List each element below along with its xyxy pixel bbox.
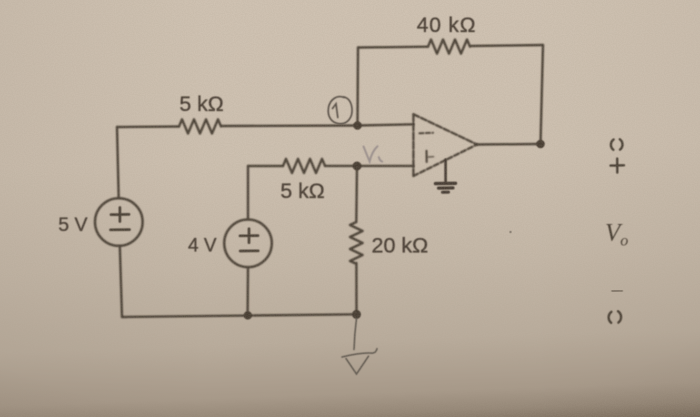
annotation circled 1 (handwritten) [328,97,352,124]
source V1 plus-minus [111,208,130,230]
wire left vertical lower [120,246,122,317]
wire op-amp output [477,143,541,146]
ground below op-amp [436,160,456,193]
wire 20k upper stub [355,166,358,222]
output terminal bottom [609,311,621,323]
source V1 5V circle [95,198,143,246]
wire 4V branch upper [247,166,249,220]
wire row2 to noninverting input [325,165,413,167]
op-amp plus mark [425,151,427,162]
label Vo [605,220,628,250]
resistor R4 20 kOhm [350,222,363,264]
resistor R3 5 kOhm [283,159,325,173]
output terminal top [611,139,625,172]
node bottom 4V junction [244,311,252,319]
node A (inverting input junction) [353,121,362,130]
wire top feedback right segment [470,45,543,46]
annotation ground arrow (handwritten) [342,319,377,375]
wire top feedback left segment [358,46,428,49]
node bottom 20k junction [352,310,361,319]
resistor R1 5 kOhm [179,119,221,133]
source V2 plus-minus [240,229,258,251]
wire feedback left vertical [356,48,359,126]
resistor R2 40 kOhm [428,40,470,54]
junction dots [244,121,545,319]
op-amp minus mark [420,132,434,135]
output plus sign [611,159,625,173]
annotation V (handwritten) [364,146,383,161]
speck artifact [509,231,511,233]
wire 4V branch lower [246,267,249,315]
wire bottom [122,314,357,317]
wire row1 left segment [117,125,179,128]
wire row1 to inverting input [221,124,413,126]
wire 20k lower stub [355,263,358,314]
node B (non-inverting junction) [353,162,362,171]
wire feedback right vertical [541,45,544,144]
wire row2 left segment [248,165,283,167]
op-amp U1 triangle [413,114,477,176]
wire left vertical upper [117,127,119,198]
output minus sign [612,290,622,292]
node output junction [536,140,545,149]
source V2 4V circle [224,220,272,268]
